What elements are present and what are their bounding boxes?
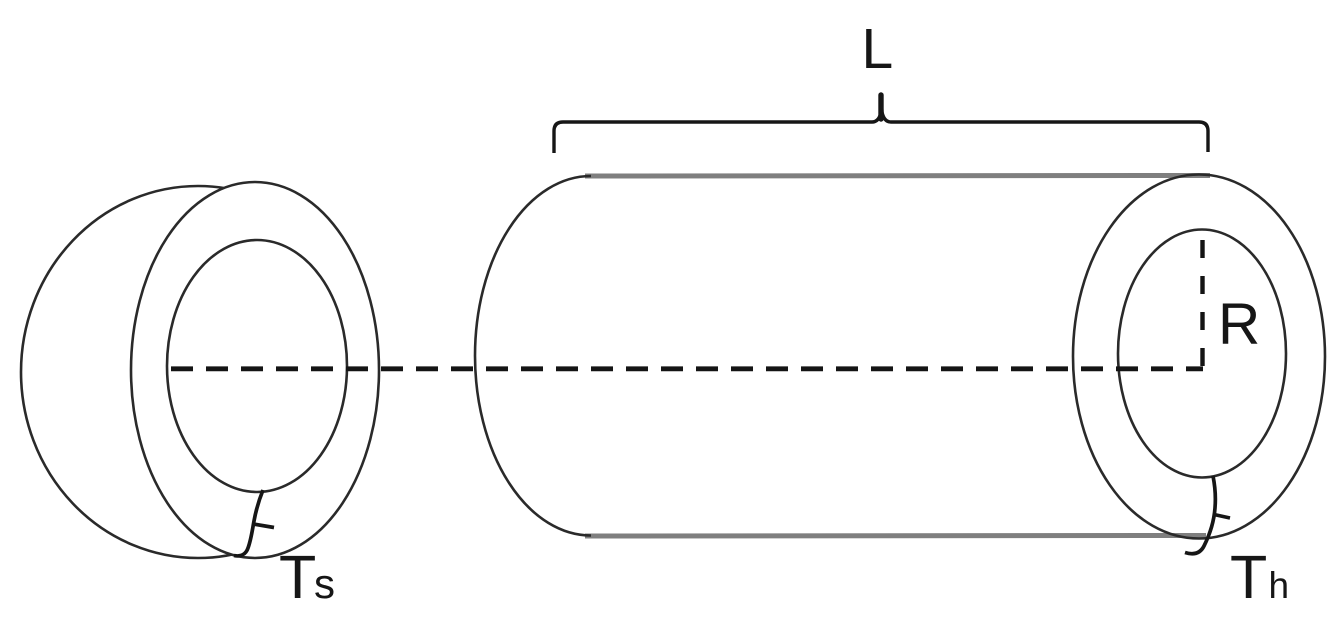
svg-text:T: T: [1230, 543, 1267, 611]
svg-text:T: T: [279, 543, 316, 611]
back ellipse of left ring: [21, 186, 375, 558]
cylinder left end arc: [475, 176, 591, 536]
cylinder bottom line: [585, 533, 1206, 539]
svg-text:s: s: [314, 560, 335, 607]
brace for L: [554, 95, 1208, 153]
squiggle leader for Th: [1185, 476, 1215, 554]
right outer ellipse of cylinder: [1073, 175, 1325, 539]
brace center nub: [878, 95, 883, 119]
cylinder top line: [585, 173, 1210, 179]
dashed axis line: [171, 366, 1203, 371]
svg-text:h: h: [1269, 565, 1290, 606]
squiggle leader for Ts: [234, 490, 263, 556]
inner hole ellipse of left ring: [167, 240, 347, 492]
dashed radius line: [1200, 240, 1204, 368]
svg-text:R: R: [1218, 292, 1260, 357]
tick of Ts leader: [253, 524, 274, 528]
svg-text:L: L: [862, 17, 894, 81]
tick of Th leader: [1214, 515, 1230, 519]
front outer ellipse of left ring: [131, 182, 379, 558]
right inner ellipse of cylinder: [1118, 230, 1286, 478]
